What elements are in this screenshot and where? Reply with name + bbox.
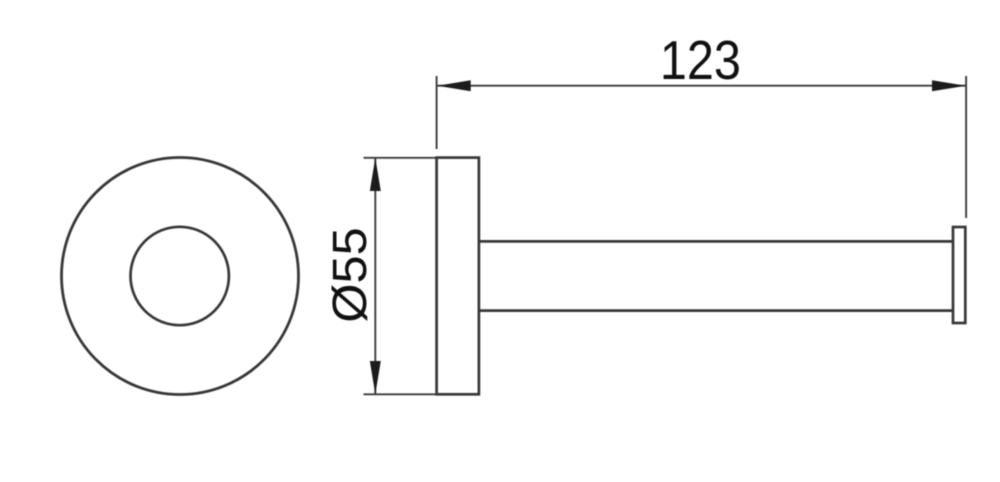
dimension O55 bottom arrowhead — [370, 361, 381, 394]
inner circle (front view hub) — [131, 227, 229, 325]
horizontal bar bottom edge — [479, 309, 953, 312]
wall plate (side view) — [437, 158, 479, 395]
horizontal bar top edge — [479, 240, 953, 243]
dimension O55 line — [374, 158, 376, 394]
dimension 123 extension line right — [965, 76, 967, 218]
dimension 123 line — [437, 85, 966, 87]
dimension 123 extension line left — [436, 76, 438, 149]
dimension 123 left arrowhead — [437, 80, 471, 91]
svg-text:Ø55: Ø55 — [323, 227, 377, 322]
dimension O55 extension line top — [364, 157, 437, 159]
end cap (side view) — [953, 227, 965, 323]
dimension label O55 (rotated) — [323, 227, 377, 322]
dimension O55 top arrowhead — [370, 158, 381, 191]
dimension label 123 — [660, 29, 741, 90]
dimension O55 extension line bottom — [364, 393, 437, 395]
dimension 123 right arrowhead — [932, 80, 966, 91]
outer circle (front view of wall flange) — [62, 158, 299, 395]
svg-text:123: 123 — [660, 29, 741, 90]
